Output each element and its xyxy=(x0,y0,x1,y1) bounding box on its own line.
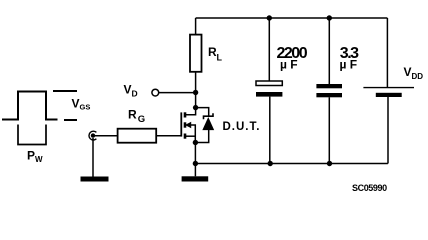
substrate wire xyxy=(191,125,195,143)
svg-text:µ F: µ F xyxy=(280,58,298,72)
node bottom-left junction xyxy=(193,161,198,166)
pulse waveform VGS xyxy=(2,92,58,120)
svg-text:G: G xyxy=(138,114,145,125)
capacitor C2 top plate xyxy=(316,84,342,88)
wire to ground (source) xyxy=(194,164,196,177)
svg-text:V: V xyxy=(404,65,412,79)
bottom rail xyxy=(195,163,388,165)
substrate arrow xyxy=(186,122,191,127)
node rail C2 top xyxy=(327,15,332,20)
wire source to bottom rail xyxy=(194,143,196,164)
battery VDD minus plate xyxy=(376,93,402,97)
wire VD to drain xyxy=(159,92,196,94)
svg-text:D.U.T.: D.U.T. xyxy=(223,121,261,133)
resistor RL xyxy=(190,35,202,72)
diode bottom wire xyxy=(195,130,208,143)
node rail C1 top xyxy=(267,15,272,20)
wire terminal to RG xyxy=(93,135,118,137)
svg-text:SC05990: SC05990 xyxy=(352,183,387,193)
source stub xyxy=(185,135,195,137)
body diode top wire xyxy=(196,108,209,117)
mosfet channel bottom segment xyxy=(184,134,187,139)
capacitor C2 bottom plate xyxy=(316,93,342,97)
battery VDD plus plate xyxy=(363,87,414,89)
node VD junction xyxy=(193,90,198,95)
node rail C1 bottom xyxy=(268,161,273,166)
svg-text:V: V xyxy=(124,83,132,97)
wire VDD bottom xyxy=(387,97,389,164)
wire terminal down to ground xyxy=(92,138,94,177)
node drain junction xyxy=(193,105,198,110)
level dash bottom xyxy=(64,119,77,121)
diode triangle xyxy=(203,118,214,130)
wire C1 bottom xyxy=(269,97,271,164)
wire C2 top xyxy=(328,18,330,84)
wire C1 top xyxy=(268,18,270,81)
node rail C2 bottom xyxy=(327,161,332,166)
node source junction xyxy=(193,140,198,145)
wire VDD top xyxy=(386,18,388,87)
svg-text:R: R xyxy=(128,108,137,122)
svg-text:DD: DD xyxy=(412,72,424,81)
PW measure bracket xyxy=(18,125,46,145)
mosfet DUT gate xyxy=(180,112,182,136)
capacitor C1 top plate (polarized, hollow) xyxy=(256,81,282,86)
ground (source) xyxy=(182,176,209,181)
mosfet channel middle segment xyxy=(184,122,187,127)
input terminal circle xyxy=(89,131,96,140)
drain stub xyxy=(185,108,196,115)
wire C2 bottom xyxy=(328,97,330,163)
ground (input) xyxy=(81,177,109,182)
mosfet channel top segment xyxy=(184,112,187,117)
capacitor C1 bottom plate xyxy=(256,92,282,97)
svg-text:µ F: µ F xyxy=(340,58,358,72)
wire RG to gate xyxy=(156,135,181,137)
wire rail to RL xyxy=(195,18,197,35)
svg-text:D: D xyxy=(132,89,138,99)
VD terminal circle xyxy=(152,89,159,96)
svg-text:L: L xyxy=(217,53,223,63)
resistor RG xyxy=(118,129,157,143)
zener cathode bar xyxy=(204,113,214,119)
wire RL to VD node xyxy=(195,72,197,108)
level dash top xyxy=(53,90,77,92)
top rail xyxy=(196,17,388,19)
